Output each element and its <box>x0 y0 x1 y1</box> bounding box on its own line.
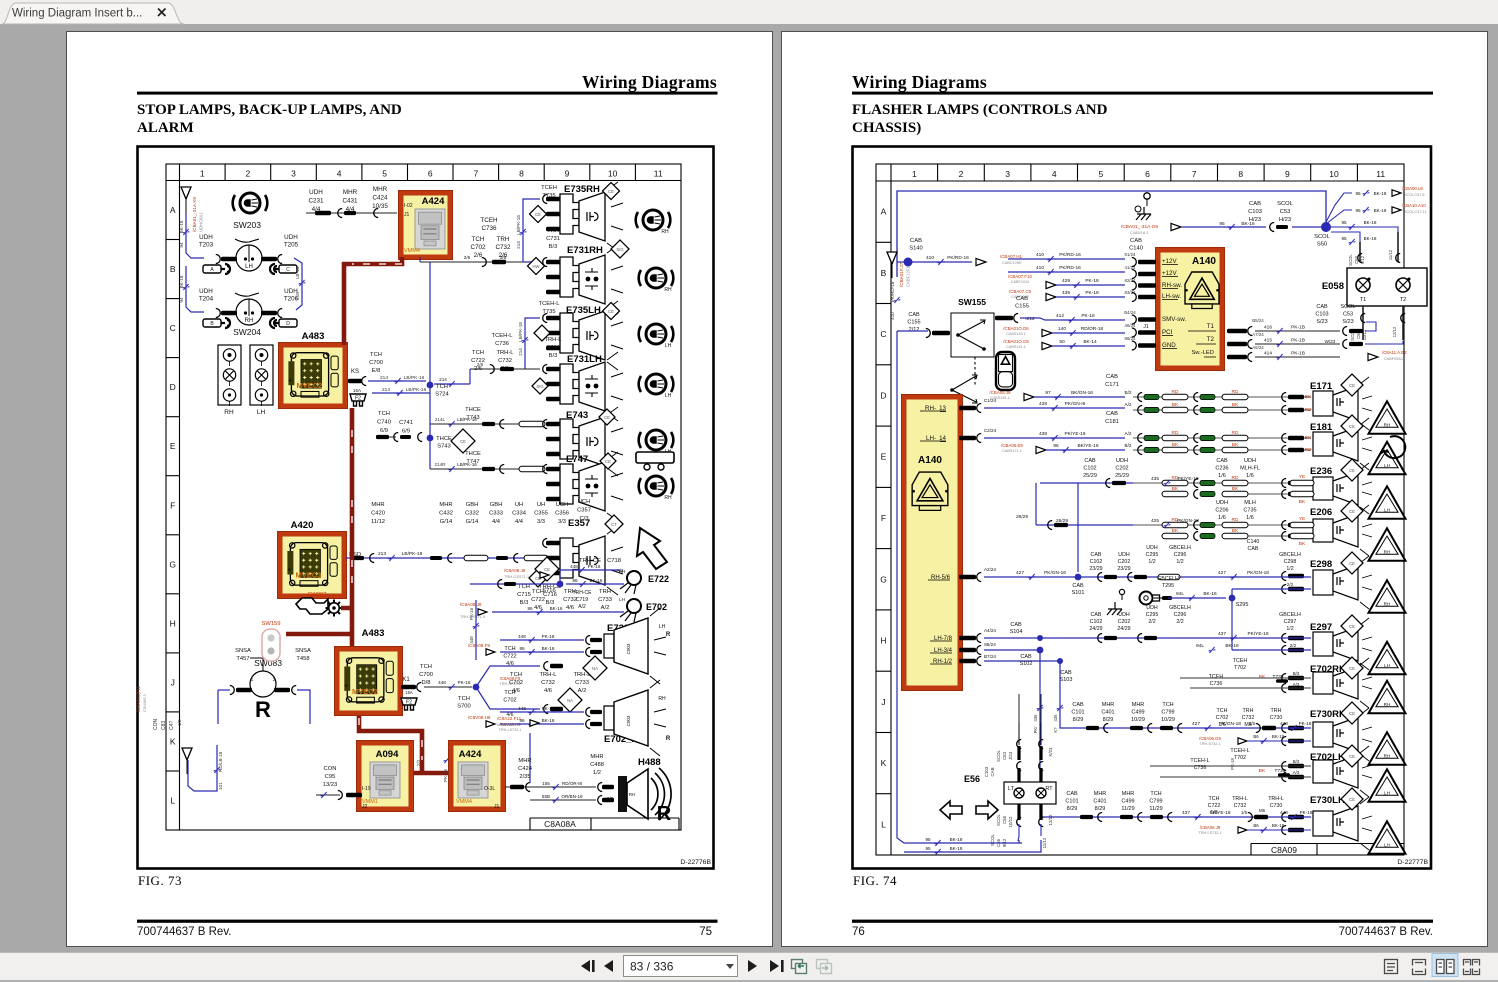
svg-text:BK-18: BK-18 <box>179 220 184 233</box>
svg-text:SW203: SW203 <box>233 220 261 230</box>
svg-text:9/12: 9/12 <box>1360 255 1365 264</box>
svg-text:/CBA01O.C8: /CBA01O.C8 <box>1003 339 1029 344</box>
svg-text:PCI: PCI <box>1162 329 1173 336</box>
svg-text:94L: 94L <box>1196 643 1204 649</box>
svg-text:2/2: 2/2 <box>607 796 614 802</box>
svg-text:A: A <box>170 205 176 215</box>
svg-text:C700: C700 <box>419 672 433 678</box>
svg-text:TCEH-L: TCEH-L <box>539 301 561 307</box>
svg-text:94: 94 <box>179 242 184 248</box>
label UDH C236 MLH-FL <box>1215 458 1314 505</box>
svg-text:414: 414 <box>1264 351 1272 357</box>
svg-text:CABS141.1: CABS141.1 <box>1006 345 1026 349</box>
wire 438 E181 row <box>984 431 1125 441</box>
svg-text:PK/RD-16: PK/RD-16 <box>1059 265 1081 271</box>
svg-text:PK-18: PK-18 <box>1300 810 1313 815</box>
lamp module E735RH <box>543 182 623 251</box>
svg-text:3/3: 3/3 <box>537 519 545 525</box>
svg-text:H/23: H/23 <box>1249 217 1261 223</box>
svg-text:C719: C719 <box>576 597 588 603</box>
svg-text:S743: S743 <box>437 444 451 450</box>
svg-text:CE: CE <box>608 309 614 314</box>
headlamp icon E735LH <box>639 324 674 349</box>
svg-text:CE: CE <box>1349 666 1355 671</box>
svg-text:2/6: 2/6 <box>464 255 471 260</box>
right diagram grid border <box>876 164 1404 855</box>
svg-text:8/29: 8/29 <box>1067 806 1078 812</box>
left harness code box C8A08A <box>530 818 679 830</box>
svg-text:C333: C333 <box>489 511 503 517</box>
svg-text:BK-18: BK-18 <box>1272 823 1285 828</box>
label cluster MHR C488 <box>590 754 614 802</box>
svg-text:2/2: 2/2 <box>1176 619 1183 625</box>
svg-text:A483: A483 <box>362 628 385 639</box>
left grid column numbers <box>200 164 663 181</box>
svg-text:TRH-L: TRH-L <box>573 672 591 678</box>
svg-text:101: 101 <box>218 782 223 790</box>
svg-text:BK-18: BK-18 <box>1364 220 1377 225</box>
svg-text:A424: A424 <box>422 196 445 207</box>
svg-text:C0N085.1: C0N085.1 <box>142 693 147 712</box>
wire TRH into E731RH <box>523 261 540 263</box>
right harness code box C8A09 <box>1251 844 1404 856</box>
svg-text:/CBA05.E9: /CBA05.E9 <box>1001 443 1023 448</box>
svg-text:PK/YE-16: PK/YE-16 <box>1064 431 1085 437</box>
svg-text:C298: C298 <box>1284 559 1297 565</box>
svg-text:R: R <box>666 632 671 638</box>
wire 410 first +12V row <box>908 254 1023 266</box>
svg-text:91/24: 91/24 <box>1125 252 1137 257</box>
lamp module E206 row <box>1133 500 1406 561</box>
wire bottom left L <box>188 745 220 791</box>
svg-text:2: 2 <box>246 169 251 179</box>
svg-text:PK/RD-16: PK/RD-16 <box>1059 252 1081 258</box>
svg-text:/CBA01_-31A.K9: /CBA01_-31A.K9 <box>192 197 197 232</box>
svg-text:1/6: 1/6 <box>1218 515 1226 521</box>
headlamp icon E731LH <box>639 374 674 399</box>
svg-text:TCH: TCH <box>532 589 544 595</box>
svg-text:CON: CON <box>324 766 337 772</box>
svg-text:RD: RD <box>1232 389 1239 395</box>
svg-text:C155: C155 <box>1015 304 1029 310</box>
lamp icon E702 <box>619 597 667 622</box>
horn module E722_NA <box>586 608 671 684</box>
svg-text:GBCELH: GBCELH <box>1279 552 1301 558</box>
svg-text:TCH: TCH <box>472 236 485 243</box>
svg-text:410: 410 <box>926 255 934 261</box>
diamond E722_NA <box>583 656 607 680</box>
svg-text:CT: CT <box>611 522 617 527</box>
svg-text:415: 415 <box>1264 338 1272 344</box>
svg-text:VMM4: VMM4 <box>456 799 472 805</box>
label UDH T203 <box>199 234 214 249</box>
wires 416 415 414 from A140 <box>1227 318 1340 362</box>
svg-text:R: R <box>255 697 271 722</box>
svg-text:C83: C83 <box>161 721 167 730</box>
wire into A424 pin I-02 <box>306 209 397 218</box>
rotated labels above A094 <box>400 757 453 790</box>
svg-text:C53: C53 <box>1343 312 1353 318</box>
svg-text:C140: C140 <box>1247 539 1260 545</box>
lamp module E743 <box>543 407 623 476</box>
svg-text:CE: CE <box>605 459 611 464</box>
document tab <box>2 3 184 24</box>
svg-text:E236: E236 <box>1310 466 1332 477</box>
svg-text:MHR: MHR <box>518 758 531 764</box>
svg-text:C231: C231 <box>308 198 324 205</box>
svg-text:UDH: UDH <box>199 288 213 295</box>
right grid row letters <box>876 207 891 830</box>
svg-text:+: + <box>288 377 292 384</box>
svg-text:UCH: UCH <box>556 502 569 508</box>
svg-text:PK/RD-18: PK/RD-18 <box>890 281 895 302</box>
svg-text:GND: GND <box>1162 342 1176 349</box>
switch SW204 <box>216 293 282 337</box>
diamond above E735RH <box>603 182 620 199</box>
node TCH S724 <box>427 382 450 398</box>
svg-text:/CBA06.J9: /CBA06.J9 <box>1200 825 1221 830</box>
svg-text:RH-sw.: RH-sw. <box>1162 282 1182 289</box>
svg-text:4/4: 4/4 <box>515 519 524 525</box>
svg-text:+: + <box>344 683 348 690</box>
svg-text:S295: S295 <box>1236 602 1249 608</box>
svg-text:C297: C297 <box>1284 619 1297 625</box>
wire 410 +12V pin row 1 <box>1008 252 1125 262</box>
wire 437 E297 feed <box>1040 605 1311 643</box>
svg-text:T702: T702 <box>1234 755 1246 761</box>
svg-text:K/23: K/23 <box>1048 747 1053 757</box>
svg-text:D: D <box>170 382 176 392</box>
svg-text:TCH: TCH <box>1162 702 1173 708</box>
lamp module E236 row <box>1133 459 1406 519</box>
svg-text:1/6: 1/6 <box>1246 473 1254 479</box>
svg-text:I-02: I-02 <box>404 203 413 209</box>
svg-text:A/3: A/3 <box>1293 770 1300 775</box>
svg-text:FIG. 73: FIG. 73 <box>138 873 182 888</box>
svg-text:/CBA05.J9: /CBA05.J9 <box>990 390 1012 395</box>
svg-text:C2/24: C2/24 <box>984 428 997 433</box>
svg-text:448: 448 <box>469 636 474 644</box>
cable lug C <box>270 264 297 274</box>
svg-text:C722: C722 <box>1208 803 1221 809</box>
svg-text:/CBA01C(F11: /CBA01C(F11 <box>136 686 141 712</box>
switch SW203 <box>216 220 282 271</box>
svg-text:6/9: 6/9 <box>380 428 388 434</box>
svg-text:T735: T735 <box>1273 674 1284 680</box>
svg-text:RH: RH <box>1384 550 1391 555</box>
svg-text:BK-18: BK-18 <box>950 837 963 842</box>
svg-text:TRH-L: TRH-L <box>1232 796 1248 802</box>
svg-text:2/6: 2/6 <box>499 252 508 259</box>
rotated labels row K left <box>136 686 223 790</box>
svg-text:E171: E171 <box>1310 381 1333 392</box>
svg-text:C733: C733 <box>598 597 612 603</box>
svg-text:CE: CE <box>1349 711 1355 716</box>
lamp module E747 <box>543 452 623 521</box>
svg-text:SIG: SIG <box>536 384 543 389</box>
svg-text:CAB: CAB <box>1072 583 1084 589</box>
svg-text:O-3L: O-3L <box>484 786 495 792</box>
svg-text:MHR: MHR <box>373 186 388 193</box>
svg-text:CAB: CAB <box>1060 670 1072 676</box>
drop wires into E058 <box>1348 232 1400 266</box>
svg-text:RH: RH <box>658 696 666 702</box>
A140 pin RH-5/6 <box>928 567 996 582</box>
svg-text:12/12: 12/12 <box>1048 814 1053 826</box>
svg-text:TRH-L5732.1: TRH-L5732.1 <box>499 728 522 732</box>
svg-text:15A: 15A <box>353 388 361 393</box>
wire TRH-L into E731LH <box>434 362 540 387</box>
svg-text:RT: RT <box>1045 786 1053 792</box>
svg-text:2/2: 2/2 <box>1287 582 1294 587</box>
svg-text:S724: S724 <box>435 392 449 398</box>
svg-text:CAB: CAB <box>1248 546 1259 552</box>
svg-text:CE: CE <box>460 439 466 444</box>
svg-text:BK: BK <box>1232 402 1239 408</box>
continuous view icon <box>1413 960 1426 975</box>
svg-text:95: 95 <box>1219 221 1225 227</box>
svg-text:NA: NA <box>592 666 598 671</box>
svg-text:TCH: TCH <box>420 664 432 670</box>
svg-text:CAB: CAB <box>1091 612 1102 618</box>
svg-text:UDH: UDH <box>199 234 213 241</box>
svg-text:LB/PK-16: LB/PK-16 <box>457 462 477 467</box>
svg-text:CAB: CAB <box>1020 654 1032 660</box>
svg-text:86: 86 <box>527 606 533 611</box>
arrow 414 row end <box>1368 350 1407 361</box>
svg-text:VMM4: VMM4 <box>404 248 420 254</box>
label THCE T747 <box>465 451 481 465</box>
svg-text:Sw.-LED: Sw.-LED <box>1191 350 1214 356</box>
svg-text:CE: CE <box>1349 468 1355 473</box>
svg-text:10/29: 10/29 <box>1131 717 1145 723</box>
svg-text:/CBA01O.D6: /CBA01O.D6 <box>1003 326 1029 331</box>
svg-text:435: 435 <box>1033 714 1038 722</box>
svg-text:CE: CE <box>544 567 550 572</box>
svg-text:2/2: 2/2 <box>416 759 421 766</box>
svg-text:A094: A094 <box>376 749 399 760</box>
label TCEH-L T735 <box>539 301 561 315</box>
A140 central left pins <box>1132 258 1156 351</box>
svg-text:B7/24: B7/24 <box>984 654 996 659</box>
svg-text:SNSA: SNSA <box>295 648 311 654</box>
svg-text:C332: C332 <box>465 511 479 517</box>
svg-text:R: R <box>666 736 671 742</box>
svg-text:B/2: B/2 <box>1125 390 1132 395</box>
svg-text:SCOLC37.11: SCOLC37.11 <box>1404 210 1426 214</box>
svg-text:C730: C730 <box>1270 803 1283 809</box>
svg-text:13/23: 13/23 <box>323 782 338 788</box>
wire blue vertical junction to S743 <box>429 262 431 469</box>
svg-text:BK/YE-16: BK/YE-16 <box>1077 443 1098 449</box>
svg-text:6: 6 <box>1145 169 1150 179</box>
svg-text:UDH: UDH <box>1116 458 1128 464</box>
left grid row letters <box>166 205 180 805</box>
wire 214 LB/PK-16 row 2 <box>372 387 430 396</box>
diamond row G <box>529 569 547 587</box>
module A420 <box>278 520 347 599</box>
svg-text:CE: CE <box>604 415 610 420</box>
wire 214 LB/PK-16 row 1 <box>368 375 426 384</box>
next page button <box>748 960 757 972</box>
svg-text:LH: LH <box>665 393 672 399</box>
svg-text:TRH: TRH <box>564 589 576 595</box>
svg-text:F2: F2 <box>406 700 412 706</box>
svg-text:RH: RH <box>629 792 636 797</box>
svg-text:C731: C731 <box>546 345 560 351</box>
svg-text:HW: HW <box>533 264 540 269</box>
svg-text:TCH: TCH <box>458 696 470 702</box>
svg-text:C357: C357 <box>577 508 591 514</box>
lamp module E702RH row <box>1282 657 1406 713</box>
svg-text:10/12: 10/12 <box>1008 816 1013 828</box>
svg-text:C401: C401 <box>1093 799 1106 805</box>
svg-text:UH: UH <box>537 502 545 508</box>
svg-text:TRH: TRH <box>599 589 611 595</box>
label UDH T205 <box>284 234 299 249</box>
fuse KS and wire TCH C700 <box>348 352 383 406</box>
svg-text:C735: C735 <box>1243 508 1256 514</box>
wire 435 E236 feed <box>1040 458 1199 572</box>
svg-text:75: 75 <box>699 926 712 938</box>
wires at SW083 <box>218 690 310 724</box>
svg-text:BK: BK <box>1172 528 1179 534</box>
svg-text:2/6: 2/6 <box>477 362 484 367</box>
svg-text:2/12: 2/12 <box>909 327 920 333</box>
wire row E730LH <box>1065 791 1312 835</box>
svg-text:448: 448 <box>518 706 526 711</box>
svg-text:A7/24: A7/24 <box>1252 332 1264 337</box>
label UDH T204 <box>199 288 214 303</box>
svg-text:438: 438 <box>1039 431 1047 437</box>
svg-text:BK: BK <box>1259 768 1266 774</box>
label CAB C171 <box>1105 374 1132 407</box>
svg-text:213: 213 <box>378 551 386 557</box>
svg-text:LB/PK-18: LB/PK-18 <box>402 551 423 557</box>
svg-text:RH: RH <box>661 229 669 235</box>
svg-text:TCEH-L: TCEH-L <box>1190 758 1209 764</box>
svg-text:Wiring Diagrams: Wiring Diagrams <box>852 72 987 92</box>
label SCOL C53 H/23 <box>1277 201 1294 223</box>
module E058 <box>1322 268 1427 306</box>
svg-text:SCOL: SCOL <box>1348 254 1353 266</box>
lamp module E731LH <box>543 352 623 421</box>
wire BK-18 lower-left of SW204 <box>179 266 204 312</box>
svg-text:T457: T457 <box>236 656 249 662</box>
svg-text:E: E <box>881 452 887 462</box>
svg-text:C424: C424 <box>518 766 533 772</box>
wire to E702 <box>460 602 624 619</box>
svg-text:6/9: 6/9 <box>402 429 410 435</box>
svg-text:RH: RH <box>1384 702 1391 707</box>
svg-text:440: 440 <box>1280 721 1288 726</box>
svg-text:11/12: 11/12 <box>1388 249 1393 260</box>
svg-text:94: 94 <box>179 297 184 303</box>
svg-text:C102: C102 <box>1083 466 1096 472</box>
svg-text:448: 448 <box>570 564 578 569</box>
svg-text:8: 8 <box>1238 169 1243 179</box>
svg-text:C53: C53 <box>1280 209 1291 215</box>
svg-text:BK: BK <box>1232 528 1239 534</box>
switch SW092 <box>296 592 328 614</box>
svg-text:C730: C730 <box>1270 715 1283 721</box>
svg-text:UDHC8A1: UDHC8A1 <box>199 212 204 232</box>
wire 429 RH-sw row <box>1008 274 1125 289</box>
svg-text:+12V: +12V <box>1162 258 1177 265</box>
svg-text:E730RH: E730RH <box>1310 709 1346 720</box>
svg-text:LH: LH <box>245 264 253 270</box>
svg-text:S101: S101 <box>1072 590 1085 596</box>
svg-text:F2: F2 <box>355 396 361 402</box>
red ref and arrow GND row <box>1003 339 1125 350</box>
svg-text:214: 214 <box>518 348 523 356</box>
svg-text:11/29: 11/29 <box>1149 806 1162 812</box>
svg-text:SCOL: SCOL <box>996 813 1001 826</box>
svg-text:J1: J1 <box>404 212 410 218</box>
module A424 (top) <box>399 191 453 260</box>
svg-text:8: 8 <box>519 169 524 179</box>
svg-text:PK-18: PK-18 <box>1085 278 1099 284</box>
SW155 connector bars <box>907 296 1035 338</box>
svg-text:TCH: TCH <box>436 384 448 390</box>
svg-text:BK-18: BK-18 <box>542 718 555 723</box>
label CAB C181 <box>1105 411 1132 448</box>
svg-text:E722: E722 <box>648 574 669 584</box>
svg-text:T2: T2 <box>1400 297 1406 303</box>
single page view icon <box>1385 960 1398 974</box>
svg-text:CAB: CAB <box>910 238 922 244</box>
svg-text:TCH: TCH <box>1150 791 1161 797</box>
label cluster TCEH-L C736 TCH C722 TRH-L C732 <box>471 333 514 372</box>
svg-text:E/8: E/8 <box>372 368 381 374</box>
module E56 <box>940 774 998 819</box>
svg-text:PK-1B: PK-1B <box>1291 351 1305 357</box>
svg-text:214: 214 <box>380 375 388 381</box>
svg-text:G: G <box>880 574 887 584</box>
module A140 central <box>1156 248 1225 371</box>
wire 427 E298 feed <box>984 570 1311 596</box>
maroon harness wire main path <box>286 257 450 773</box>
svg-text:10/29: 10/29 <box>1161 717 1175 723</box>
label cluster MHR C431 4/4 <box>342 189 358 213</box>
net label /CBA01_-31A.K9 (red, vertical) <box>192 197 204 232</box>
svg-text:/C8V08.H9: /C8V08.H9 <box>468 715 491 720</box>
svg-text:7: 7 <box>1192 169 1197 179</box>
svg-text:C: C <box>170 323 176 333</box>
labels TCEH E702RH feed <box>1180 658 1311 688</box>
label CAB C103 H/23 <box>1248 201 1262 223</box>
svg-text:C103: C103 <box>984 766 989 777</box>
svg-text:A424: A424 <box>459 749 482 760</box>
svg-text:214R: 214R <box>435 462 447 467</box>
svg-text:PK/GN-18: PK/GN-18 <box>1247 570 1269 576</box>
svg-text:C236: C236 <box>1215 466 1228 472</box>
wires from S50 to top right arrows <box>1326 186 1426 224</box>
A140 T1 T2 LED pin rows <box>1188 323 1216 357</box>
wire BK-18 left column <box>179 213 204 258</box>
svg-text:T702: T702 <box>1234 665 1246 671</box>
svg-text:B: B <box>170 264 176 274</box>
svg-text:C488: C488 <box>590 762 604 768</box>
svg-text:23/29: 23/29 <box>1117 566 1130 572</box>
svg-text:CAB: CAB <box>1106 411 1118 417</box>
lamp module E730LH row <box>1282 788 1406 854</box>
svg-text:6: 6 <box>428 169 433 179</box>
red ref and arrow PCI row <box>1003 324 1149 337</box>
blue wire from E702_NA down to H488 <box>529 733 531 783</box>
label CAB C140 top pins <box>1124 238 1143 341</box>
left grid letter column line <box>179 164 181 830</box>
